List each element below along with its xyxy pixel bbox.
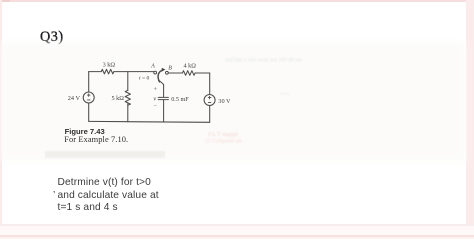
resistor R2 5 kOhm — [125, 90, 130, 105]
svg-text:24 V: 24 V — [68, 95, 81, 102]
wire right vertical upper — [209, 73, 211, 95]
Q3) heading — [40, 29, 64, 46]
svg-text:30 V: 30 V — [218, 98, 231, 105]
svg-text:0.5 mF: 0.5 mF — [171, 96, 189, 103]
wire middle vertical upper — [127, 72, 129, 91]
resistor R3 4 kOhm — [182, 71, 195, 76]
svg-text:t = 0: t = 0 — [139, 76, 150, 82]
capacitor C1 plates — [158, 97, 168, 99]
wire left vertical lower — [88, 103, 90, 121]
label capacitor polarity + v - — [153, 87, 157, 109]
switch SW1 arm with arrow — [158, 68, 165, 82]
wire bottom — [89, 120, 210, 123]
svg-text:tena.: tena. — [280, 91, 291, 97]
wire middle vertical lower — [127, 104, 129, 122]
wire switch pivot to capacitor — [159, 81, 163, 97]
frame right band — [466, 0, 474, 239]
svg-text:4 kΩ: 4 kΩ — [184, 63, 197, 70]
wire left vertical upper — [88, 72, 90, 92]
wire R3 to right corner — [195, 72, 210, 74]
wire capacitor to bottom — [163, 100, 165, 122]
node A — [154, 71, 157, 74]
svg-text:3 kΩ: 3 kΩ — [103, 61, 116, 68]
svg-text:A: A — [150, 63, 155, 69]
wire right vertical lower — [209, 106, 211, 123]
voltage source V1 24V — [83, 92, 94, 103]
svg-text:B: B — [168, 66, 172, 72]
svg-text:21 Colquiad sat.: 21 Colquiad sat. — [205, 138, 243, 144]
wire node B to R3 — [168, 72, 182, 74]
svg-text:v: v — [153, 95, 156, 102]
frame top line — [0, 0, 474, 2]
svg-text:5 kΩ: 5 kΩ — [111, 95, 124, 102]
resistor R1 3 kOhm — [101, 69, 114, 74]
problem statement text — [58, 177, 159, 214]
svg-text:For Example 7.10.: For Example 7.10. — [64, 135, 128, 144]
wire top-left segment — [89, 71, 102, 73]
node B — [166, 71, 169, 74]
frame left line — [0, 0, 2, 239]
frame bottom band — [0, 224, 474, 226]
voltage source V2 30V — [204, 95, 215, 106]
svg-text:and late a whi venit not 300-4: and late a whi venit not 300-40 sat. — [225, 58, 304, 64]
wire top-middle segment — [114, 71, 154, 73]
svg-text:FA.T mappl: FA.T mappl — [208, 131, 238, 138]
figure caption — [64, 127, 128, 144]
